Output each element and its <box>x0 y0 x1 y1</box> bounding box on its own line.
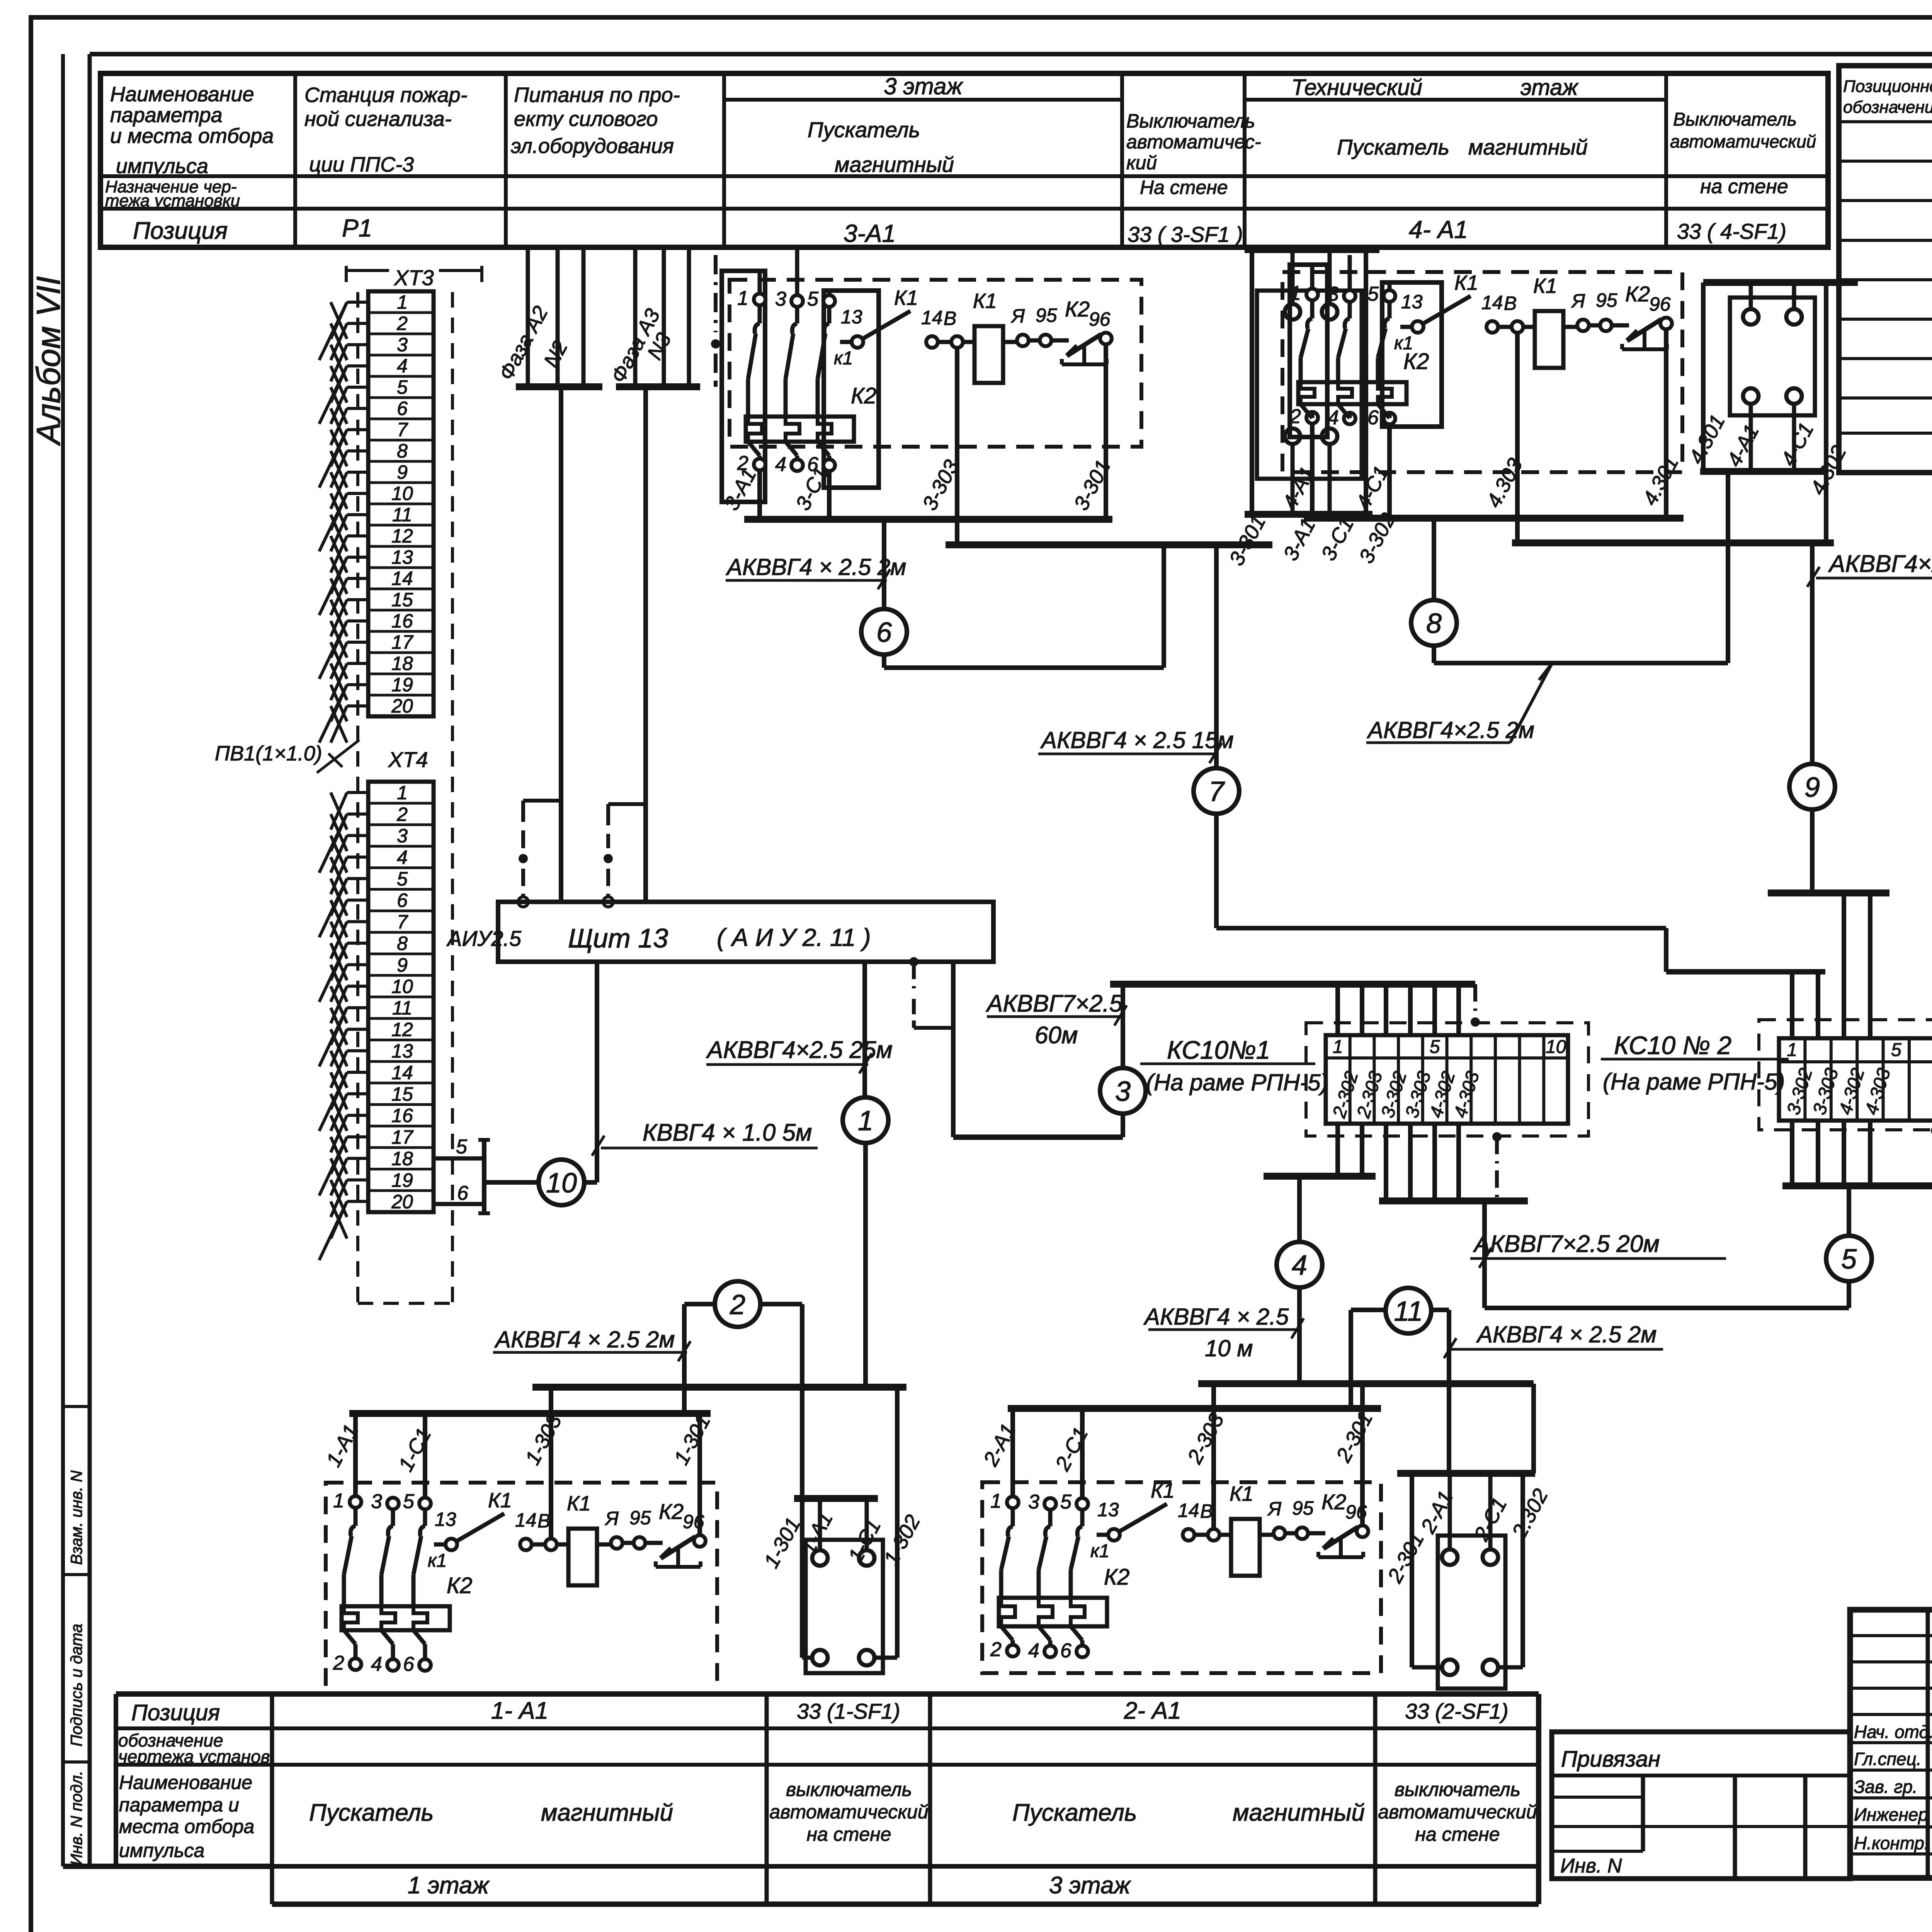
svg-text:автоматический: автоматический <box>1378 1801 1537 1823</box>
svg-text:8: 8 <box>397 440 408 462</box>
phase A3 label <box>607 305 665 386</box>
svg-text:4: 4 <box>397 847 408 868</box>
svg-text:Взам. инв. N: Взам. инв. N <box>67 1470 85 1565</box>
svg-text:На стене: На стене <box>1140 177 1228 198</box>
label 4-C1 (box) <box>1777 419 1818 470</box>
KS10 N1 bottom wires 1-2 <box>1338 1124 1362 1176</box>
wire bundle to XT4 <box>319 793 368 1260</box>
label 3-301 <box>1070 456 1115 514</box>
svg-text:3: 3 <box>1328 283 1339 305</box>
svg-text:60м: 60м <box>1035 1022 1078 1049</box>
svg-text:и места отбора: и места отбора <box>110 124 274 148</box>
svg-text:(На раме РПН-5): (На раме РПН-5) <box>1603 1069 1785 1095</box>
svg-text:15: 15 <box>391 589 413 611</box>
bus below KS10 N1 (right) <box>1379 1197 1528 1204</box>
drawing frame top line <box>90 52 1932 56</box>
svg-text:Инженер: Инженер <box>1854 1804 1928 1825</box>
label 4-301 (box) <box>1685 411 1730 468</box>
svg-text:Инв. N подл.: Инв. N подл. <box>67 1771 85 1866</box>
label 3-A1 <box>720 464 761 514</box>
panel Shchit 13 (AIU2.11) <box>498 902 993 962</box>
phase A3 feeder lines <box>616 247 700 387</box>
bus 4b <box>1512 539 1834 546</box>
svg-text:6: 6 <box>457 1182 468 1204</box>
svg-text:Выключатель: Выключатель <box>1126 110 1255 132</box>
svg-text:Пускатель: Пускатель <box>1337 135 1449 159</box>
svg-text:4: 4 <box>775 453 786 476</box>
svg-text:Наименование: Наименование <box>110 83 254 106</box>
svg-text:1: 1 <box>858 1105 873 1136</box>
wire: bus3b down to circle 7 <box>1214 545 1219 769</box>
svg-text:14: 14 <box>515 1509 537 1531</box>
svg-text:4: 4 <box>1328 406 1339 429</box>
svg-text:К2: К2 <box>851 383 876 408</box>
svg-text:КВВГ4 × 1.0 5м: КВВГ4 × 1.0 5м <box>643 1119 812 1146</box>
svg-text:14: 14 <box>391 1062 413 1083</box>
svg-text:АКВВГ7×2.5: АКВВГ7×2.5 <box>985 990 1123 1017</box>
svg-text:1: 1 <box>737 287 748 310</box>
privyazan label <box>1561 1747 1660 1772</box>
junction box 1 (wall switch 1-SF1) <box>806 1540 883 1673</box>
terminal box KS10 N2 <box>1779 1038 1932 1121</box>
svg-text:АКВВГ4×2.5 25м: АКВВГ4×2.5 25м <box>706 1037 893 1063</box>
svg-text:6: 6 <box>876 617 892 648</box>
contactor 3-A1 (magnetic starter) <box>737 286 1112 476</box>
svg-text:ной сигнализа-: ной сигнализа- <box>304 107 452 131</box>
svg-text:АКВВГ4 × 2.5 2м: АКВВГ4 × 2.5 2м <box>1476 1321 1656 1347</box>
svg-text:магнитный: магнитный <box>1233 1799 1365 1826</box>
node 4-A1 (header) <box>1409 216 1468 243</box>
svg-text:33 (1-SF1): 33 (1-SF1) <box>797 1699 900 1723</box>
svg-text:95: 95 <box>1292 1497 1314 1519</box>
wire: circle 2 right lead <box>760 1304 802 1387</box>
svg-text:Позиция: Позиция <box>133 218 228 244</box>
wire 1-301 (96 to bus) <box>697 1413 702 1535</box>
svg-text:К2: К2 <box>659 1499 684 1524</box>
terminal bar XT4 5-6 <box>434 1136 490 1213</box>
header col4 text <box>808 73 963 177</box>
svg-text:Гл.спец.: Гл.спец. <box>1854 1749 1922 1769</box>
wire: bus4a down to circle 8 <box>1432 518 1436 601</box>
wire 2-C1 (bus to pin5) <box>1080 1408 1085 1498</box>
cable label AKVVG7x2.5 60m <box>985 990 1127 1049</box>
svg-text:3: 3 <box>371 1490 382 1513</box>
svg-text:1 этаж: 1 этаж <box>408 1872 490 1899</box>
svg-text:В: В <box>944 308 956 329</box>
svg-text:9: 9 <box>397 461 408 483</box>
cable circle 3 <box>1100 1068 1146 1114</box>
contactor 3-A1 mounting boxes <box>722 271 879 502</box>
wire: KS10 N1 left bus down to circle 4 <box>1297 1176 1302 1242</box>
wire: bus4b down to circle 9 <box>1810 543 1815 765</box>
svg-text:8: 8 <box>1426 608 1442 639</box>
title block outline <box>1850 1610 1932 1878</box>
svg-text:Станция пожар-: Станция пожар- <box>304 83 468 107</box>
label 2-301 (box) <box>1383 1529 1429 1587</box>
svg-text:4: 4 <box>397 355 408 377</box>
svg-text:магнитный: магнитный <box>541 1799 673 1826</box>
svg-text:Привязан: Привязан <box>1561 1747 1660 1772</box>
svg-text:Пускатель: Пускатель <box>1012 1799 1137 1826</box>
vertical label: Vzam.inv.N <box>67 1470 85 1565</box>
svg-text:Позиционное: Позиционное <box>1843 77 1932 96</box>
KS10 N2 junction dot + dash-dot <box>1931 1126 1932 1186</box>
svg-text:АКВВГ4 × 2.5: АКВВГ4 × 2.5 <box>1143 1304 1289 1330</box>
wire 3-A1 (pin2 to bus) <box>757 470 762 519</box>
svg-text:5: 5 <box>807 288 819 310</box>
cable circle 7 <box>1194 768 1239 814</box>
svg-text:96: 96 <box>1089 308 1111 330</box>
header col1 row2 text <box>105 177 240 210</box>
svg-text:эл.оборудования: эл.оборудования <box>511 134 674 158</box>
wire: panel to circle 1 <box>862 962 867 1098</box>
node 3-A1 (header) <box>844 219 896 247</box>
KS10 N1 bottom wires 3-6 <box>1386 1124 1459 1201</box>
svg-text:К1: К1 <box>894 286 918 310</box>
phase area dash-dot mark <box>711 255 720 387</box>
label 3-A1 (box) <box>1279 515 1320 565</box>
svg-text:1: 1 <box>397 291 408 313</box>
svg-text:2: 2 <box>396 313 408 334</box>
svg-text:95: 95 <box>1596 289 1617 311</box>
title block signature grid <box>1850 1610 1932 1878</box>
svg-text:11: 11 <box>1394 1296 1423 1327</box>
svg-text:АКВВГ4×2.5 10м: АКВВГ4×2.5 10м <box>1828 551 1932 577</box>
svg-text:автоматический: автоматический <box>1670 131 1816 151</box>
junction box 3 (wall switch 3-SF1) <box>1257 291 1362 479</box>
KS10 N1 dashed enclosure <box>1306 1023 1588 1136</box>
wire: bus3a down to circle 6 <box>882 519 886 610</box>
svg-text:2: 2 <box>396 803 408 825</box>
wire 3-C1 (pin6 to bus) <box>827 471 832 519</box>
svg-text:АКВВГ7×2.5 20м: АКВВГ7×2.5 20м <box>1473 1231 1660 1257</box>
wire 2-A1 (bus to pin1) <box>1010 1408 1015 1497</box>
svg-text:17: 17 <box>391 1126 414 1148</box>
svg-text:13: 13 <box>841 306 862 328</box>
header col3 text <box>511 83 680 158</box>
KS10 N2 label <box>1601 1031 1789 1095</box>
KS10 N2 upper feed bus <box>1768 889 1889 896</box>
svg-text:чертежа установ.: чертежа установ. <box>118 1747 275 1767</box>
svg-text:импульса: импульса <box>119 1840 204 1861</box>
KS10 N1 top wires <box>1338 984 1459 1035</box>
label 2-A1 <box>979 1420 1020 1470</box>
vertical label: Podpis i data <box>67 1624 85 1747</box>
terminal strip XT4 <box>368 782 434 1213</box>
svg-text:11: 11 <box>392 997 412 1019</box>
label 4-303 <box>1482 454 1527 511</box>
svg-text:обозначение: обозначение <box>1843 98 1932 117</box>
svg-text:5: 5 <box>1060 1491 1072 1513</box>
svg-text:К1: К1 <box>488 1489 512 1512</box>
svg-text:К2: К2 <box>1065 297 1090 321</box>
svg-text:3-А1: 3-А1 <box>844 219 896 247</box>
cable circle 11 <box>1386 1288 1431 1333</box>
svg-text:Инв. N: Инв. N <box>1560 1855 1622 1877</box>
svg-text:К1: К1 <box>1230 1482 1253 1505</box>
svg-text:к1: к1 <box>428 1551 447 1571</box>
svg-text:выключатель: выключатель <box>1395 1779 1520 1800</box>
wire: circle 1 to 1st floor bus <box>863 1143 868 1387</box>
wire bundle to XT3 <box>319 302 368 743</box>
svg-text:К2: К2 <box>1321 1490 1346 1514</box>
svg-text:1: 1 <box>990 1490 1002 1512</box>
label 1-A1 <box>322 1421 363 1471</box>
svg-text:магнитный: магнитный <box>1468 135 1588 159</box>
svg-text:16: 16 <box>391 1105 413 1126</box>
label 3-301 (box) <box>1225 512 1270 570</box>
svg-text:К1: К1 <box>1151 1479 1175 1502</box>
junction box 4 (wall switch 4-SF1) <box>1730 298 1815 415</box>
svg-text:18: 18 <box>391 1148 413 1170</box>
bus below KS10 N2 <box>1782 1182 1932 1189</box>
svg-text:6: 6 <box>1367 406 1379 429</box>
wire: phase A2 drop to panel <box>559 387 563 902</box>
wire: circle 11 left lead <box>1351 1310 1386 1408</box>
wire 2-303 (bus to coil B) <box>1211 1384 1216 1529</box>
svg-text:13: 13 <box>435 1509 456 1530</box>
svg-text:2: 2 <box>730 1289 745 1320</box>
svg-text:В: В <box>1200 1500 1213 1522</box>
svg-text:на стене: на стене <box>1415 1823 1500 1845</box>
cable circle 6 <box>861 609 907 655</box>
bottom table grid <box>116 1694 1539 1904</box>
svg-text:5: 5 <box>1367 283 1379 305</box>
cable label AKVVG4x2.5 25m <box>706 1037 893 1073</box>
label 1-C1 <box>394 1424 436 1475</box>
svg-text:АКВВГ4×2.5 2м: АКВВГ4×2.5 2м <box>1367 717 1534 743</box>
cable circle 10 <box>539 1160 584 1205</box>
svg-text:ХТ3: ХТ3 <box>393 265 434 290</box>
wire 3-303 (coil B to bus) <box>955 348 959 545</box>
bus 3b <box>946 541 1272 548</box>
svg-text:К2: К2 <box>1625 282 1650 306</box>
label 4-A1 <box>1278 463 1320 513</box>
svg-text:15: 15 <box>391 1083 413 1105</box>
svg-text:1: 1 <box>1290 282 1301 304</box>
svg-text:Я: Я <box>1267 1498 1282 1520</box>
header col7 text <box>1670 109 1816 198</box>
cable label AKVVG4x2.5 2m (circle 11) <box>1444 1321 1663 1358</box>
label 1-301 <box>670 1411 715 1469</box>
bus 1a <box>532 1384 906 1391</box>
svg-text:4: 4 <box>1292 1250 1307 1281</box>
wire 1-303 (bus to coil B) <box>549 1387 553 1539</box>
svg-text:10: 10 <box>391 483 413 504</box>
wire: dash-dot jog 1 <box>518 801 561 907</box>
bottom row2 label <box>118 1730 275 1767</box>
wire 3-301 (96 to bus) <box>1104 344 1108 519</box>
svg-text:2: 2 <box>990 1638 1002 1661</box>
contactor 1-A1 (magnetic starter) <box>333 1489 706 1675</box>
title roles <box>1854 1722 1932 1853</box>
junction box 4 bottom bus <box>1700 468 1824 475</box>
phase A2 label <box>495 302 553 384</box>
label 3-C1 (box) <box>1317 514 1359 565</box>
cable circle 5 <box>1826 1236 1872 1281</box>
svg-text:выключатель: выключатель <box>786 1779 912 1800</box>
junction box 2 top bus <box>1397 1470 1535 1477</box>
node 33(3-SF1) <box>1128 222 1243 247</box>
label 3-303 <box>918 456 964 514</box>
svg-text:к1: к1 <box>834 348 853 369</box>
label 2-C1 (box) <box>1469 1494 1511 1545</box>
svg-text:( А И У 2. 11 ): ( А И У 2. 11 ) <box>717 923 871 951</box>
wire 4-A1 (pin2 to bus) <box>1310 423 1315 518</box>
svg-text:13: 13 <box>391 546 413 568</box>
svg-text:Технический: Технический <box>1291 75 1422 100</box>
panel dashed boundary <box>358 292 452 1303</box>
KS10 N1 label <box>1140 1036 1328 1095</box>
wire: circle 7 to KS10 N2 <box>1216 813 1825 972</box>
wire: circle 11 right lead <box>1431 1310 1449 1473</box>
svg-text:6: 6 <box>397 398 408 419</box>
svg-text:13: 13 <box>391 1040 413 1062</box>
svg-text:14: 14 <box>921 307 943 328</box>
svg-text:Позиция: Позиция <box>131 1700 220 1725</box>
header table frame <box>100 73 1828 247</box>
svg-text:АКВВГ4 × 2.5 2м: АКВВГ4 × 2.5 2м <box>494 1327 675 1352</box>
svg-text:параметра и: параметра и <box>119 1794 239 1816</box>
label 4-A1 (box) <box>1723 421 1764 471</box>
svg-text:места отбора: места отбора <box>119 1816 254 1837</box>
cable circle 9 <box>1789 764 1835 810</box>
wire: circle 5 up to KS10 N2 <box>1847 1186 1851 1235</box>
svg-text:1: 1 <box>1333 1037 1343 1057</box>
svg-text:Пускатель: Пускатель <box>309 1799 434 1826</box>
phase A2 feeder lines <box>516 247 602 387</box>
svg-text:13: 13 <box>1401 291 1423 313</box>
contactor 2-A1 (magnetic starter) <box>990 1479 1368 1662</box>
svg-text:33 ( 3-SF1 ): 33 ( 3-SF1 ) <box>1128 222 1243 247</box>
svg-text:ПВ1(1×1.0): ПВ1(1×1.0) <box>215 742 322 765</box>
bus below KS10 N1 (left) <box>1264 1173 1376 1180</box>
svg-text:3 этаж: 3 этаж <box>1049 1872 1131 1899</box>
svg-text:к1: к1 <box>1394 333 1413 354</box>
wire: circle 4 to bus 2a <box>1297 1287 1302 1384</box>
cable circle 8 <box>1411 600 1457 646</box>
spec header text <box>1843 77 1932 117</box>
wire 1-C1 (bus to pin5) <box>423 1413 427 1498</box>
wire: phase A3 drop to panel <box>643 387 648 902</box>
svg-text:11: 11 <box>392 504 412 526</box>
svg-text:КС10 № 2: КС10 № 2 <box>1614 1031 1731 1060</box>
svg-text:33 (2-SF1): 33 (2-SF1) <box>1405 1699 1509 1723</box>
bottom row1 labels <box>131 1697 1509 1725</box>
bus 2a <box>1198 1380 1534 1387</box>
junction box 4 top bus <box>1703 279 1858 286</box>
svg-text:5: 5 <box>1891 1040 1901 1060</box>
svg-text:19: 19 <box>391 674 413 696</box>
svg-text:Выключатель: Выключатель <box>1673 109 1797 130</box>
svg-text:параметра: параметра <box>110 104 223 127</box>
svg-text:4- А1: 4- А1 <box>1409 216 1468 243</box>
KS10 N2 dashed enclosure <box>1759 1020 1932 1130</box>
svg-text:20: 20 <box>391 695 413 717</box>
svg-text:Питания по про-: Питания по про- <box>514 83 680 107</box>
svg-text:автоматический: автоматический <box>769 1801 928 1823</box>
svg-text:К2: К2 <box>447 1573 472 1598</box>
svg-text:Я: Я <box>604 1508 619 1529</box>
header col1 text <box>110 83 274 178</box>
svg-text:18: 18 <box>391 653 413 674</box>
junction box 3 top bus <box>1245 246 1379 253</box>
contactor 4-A1 dashed enclosure <box>1282 272 1682 472</box>
junction box 3 wires <box>1252 250 1366 514</box>
cable label AKVVG4x2.5 2m (3fl) <box>726 554 906 589</box>
label 1-303 <box>521 1411 566 1469</box>
wire: 20m run <box>1485 1201 1849 1308</box>
svg-text:14: 14 <box>391 568 413 589</box>
XT3 label bracket <box>346 265 482 290</box>
svg-text:Нач. отд.: Нач. отд. <box>1854 1722 1932 1742</box>
header row3: Pozicija <box>133 218 228 244</box>
svg-text:1: 1 <box>333 1490 344 1512</box>
header col5 text <box>1126 110 1261 198</box>
svg-text:К1: К1 <box>1533 274 1557 298</box>
svg-text:1- А1: 1- А1 <box>491 1697 548 1724</box>
KS10 N1 feed bus <box>1110 981 1475 988</box>
wire 1-A1 (bus to pin1) <box>353 1413 358 1496</box>
wire: circle 6 to bus 3b <box>884 545 1164 668</box>
svg-text:12: 12 <box>391 525 413 547</box>
svg-text:14: 14 <box>1178 1500 1199 1521</box>
svg-text:Я: Я <box>1571 290 1585 312</box>
bottom row3 labels <box>119 1772 1537 1861</box>
wire 4-301 (96 to bus) <box>1664 330 1668 518</box>
svg-text:10: 10 <box>1546 1037 1566 1057</box>
KS10 N1 junction dot + dash-dot <box>1492 1132 1502 1201</box>
svg-text:К1: К1 <box>973 289 997 313</box>
wire: circle 10 to panel <box>584 962 597 1182</box>
svg-text:2- А1: 2- А1 <box>1124 1697 1181 1724</box>
svg-text:магнитный: магнитный <box>835 152 954 177</box>
node N3 label <box>643 329 676 364</box>
contactor 1-A1 dashed enclosure <box>326 1483 717 1693</box>
svg-text:В: В <box>1504 293 1517 314</box>
svg-text:5: 5 <box>397 376 408 398</box>
svg-text:7: 7 <box>397 419 408 440</box>
junction box 3 bottom bus <box>1245 511 1372 518</box>
contactor 3-A1 dashed enclosure <box>730 280 1141 447</box>
wire 2-301 (96 to bus) <box>1360 1384 1365 1526</box>
svg-text:на стене: на стене <box>1700 175 1788 198</box>
junction box 2 wires <box>1412 1473 1523 1667</box>
contactor 2-A1 dashed enclosure <box>982 1482 1381 1673</box>
label 4-302 (box) <box>1806 442 1851 498</box>
bottom row4 labels <box>408 1872 1131 1899</box>
svg-text:Щит 13: Щит 13 <box>568 923 668 953</box>
svg-text:95: 95 <box>629 1507 651 1529</box>
svg-text:ции ППС-3: ции ППС-3 <box>309 153 414 176</box>
svg-text:5: 5 <box>397 868 408 890</box>
svg-text:16: 16 <box>391 610 413 632</box>
label 1-301 (box) <box>760 1514 805 1572</box>
header col2 text <box>304 83 468 176</box>
cable circle 2 <box>715 1281 760 1327</box>
left column lines <box>63 54 272 1866</box>
junction box 1 top bus <box>794 1495 878 1502</box>
svg-text:АИУ2.5: АИУ2.5 <box>446 926 522 951</box>
svg-text:17: 17 <box>391 631 414 653</box>
label 2-303 <box>1183 1410 1228 1468</box>
svg-text:9: 9 <box>397 954 408 976</box>
node 33(4-SF1) <box>1677 219 1786 243</box>
wire: circle 9 to KS10 N2 upper bus <box>1810 809 1815 893</box>
svg-text:6: 6 <box>1060 1639 1071 1662</box>
svg-text:(На раме РПН-5): (На раме РПН-5) <box>1146 1070 1328 1095</box>
cable circle 1 <box>843 1097 888 1143</box>
